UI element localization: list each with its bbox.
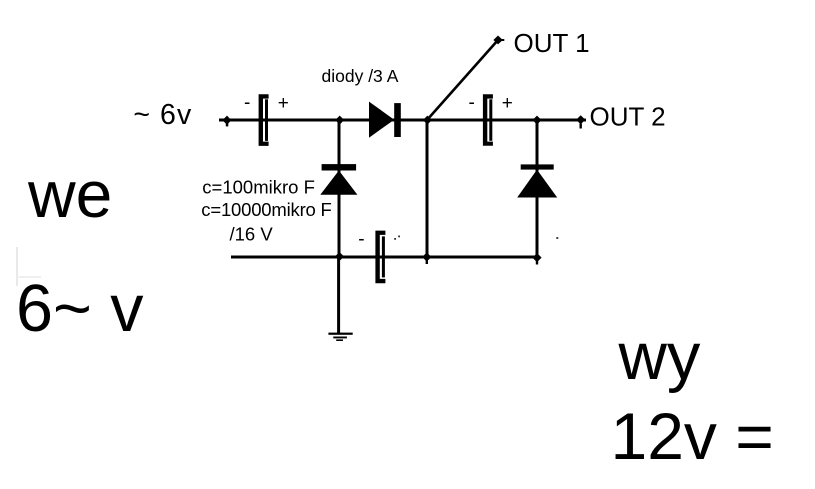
capacitor C2 (output, polarized): [483, 94, 493, 146]
node: junction C (right top): [533, 116, 542, 125]
node: junction E (bottom center): [422, 252, 431, 264]
node: OUT 1 terminal: [493, 36, 504, 45]
svg-text:-: -: [358, 229, 364, 250]
node: junction D (bottom left): [335, 252, 344, 261]
stray dot near D3: [556, 237, 558, 239]
svg-text:+: +: [278, 93, 289, 114]
wire: center vertical branch: [426, 120, 429, 257]
label: C3 plus remnant dots: [394, 236, 400, 240]
node: OUT 2 terminal: [576, 115, 585, 128]
wire: left vertical branch: [338, 120, 341, 257]
wire: right vertical branch: [536, 120, 539, 257]
svg-text:diody /3 A: diody /3 A: [322, 66, 399, 86]
diode D2 (left shunt, cathode up): [320, 164, 357, 195]
svg-text:12v =: 12v =: [611, 399, 774, 473]
wire: diagonal to OUT 1: [427, 40, 498, 120]
svg-text:/16 V: /16 V: [230, 224, 274, 245]
wire: top rail middle segment: [340, 119, 428, 122]
faint ghost stroke left margin: [16, 247, 41, 286]
node: input terminal: [222, 116, 231, 127]
capacitor C3 (bottom, polarized): [375, 231, 385, 284]
svg-text:c=10000mikro F: c=10000mikro F: [201, 199, 331, 220]
svg-text:~ 6v: ~ 6v: [133, 99, 192, 131]
wire: ground stem: [337, 257, 340, 333]
node: junction A (left): [335, 116, 344, 125]
wire: top rail to OUT 2: [537, 119, 586, 122]
wire: top rail right segment: [428, 119, 537, 122]
svg-text:+: +: [502, 93, 513, 114]
svg-text:OUT 1: OUT 1: [514, 28, 590, 58]
wire: bottom rail: [231, 256, 538, 259]
svg-text:c=100mikro F: c=100mikro F: [202, 177, 315, 198]
svg-text:-: -: [244, 93, 250, 114]
svg-text:6~ v: 6~ v: [16, 272, 144, 346]
diode D3 (right shunt, cathode up): [517, 164, 557, 197]
svg-text:OUT 2: OUT 2: [590, 102, 666, 132]
node: junction B (center): [423, 116, 432, 125]
svg-text:we: we: [27, 157, 112, 231]
svg-text:wy: wy: [618, 319, 701, 394]
capacitor C1 (input, polarized): [259, 94, 269, 146]
diode D1 (series, anode left): [369, 102, 401, 138]
wire: top rail left segment: [219, 119, 340, 122]
ground: [328, 333, 352, 341]
svg-text:-: -: [469, 93, 475, 114]
node: junction F (bottom right): [532, 253, 541, 265]
